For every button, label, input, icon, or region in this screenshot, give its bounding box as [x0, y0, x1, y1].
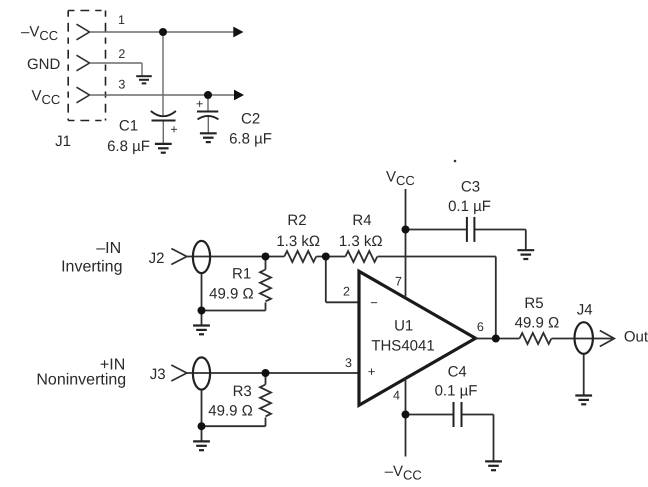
svg-text:Inverting: Inverting	[61, 259, 122, 276]
svg-text:−: −	[370, 295, 378, 310]
svg-text:C2: C2	[241, 110, 260, 127]
svg-text:J3: J3	[150, 366, 166, 383]
svg-text:J4: J4	[577, 301, 593, 318]
svg-text:3: 3	[345, 356, 352, 370]
svg-text:THS4041: THS4041	[371, 338, 434, 355]
svg-text:7: 7	[395, 275, 402, 289]
svg-text:49.9 Ω: 49.9 Ω	[209, 285, 254, 302]
svg-text:J1: J1	[55, 133, 71, 150]
svg-text:2: 2	[118, 47, 125, 61]
svg-text:J2: J2	[149, 250, 165, 267]
svg-text:C4: C4	[448, 364, 467, 381]
svg-text:0.1 µF: 0.1 µF	[448, 198, 491, 215]
svg-text:3: 3	[118, 78, 125, 92]
svg-text:Out: Out	[624, 329, 648, 346]
svg-text:6: 6	[477, 320, 484, 334]
svg-text:R3: R3	[233, 383, 252, 400]
svg-text:R5: R5	[524, 295, 543, 312]
svg-text:R4: R4	[352, 212, 371, 229]
svg-text:0.1 µF: 0.1 µF	[435, 382, 478, 399]
svg-text:C3: C3	[461, 179, 480, 196]
svg-text:–VCC: –VCC	[385, 463, 422, 483]
svg-text:2: 2	[343, 285, 350, 299]
svg-text:+: +	[368, 364, 376, 379]
svg-text:+: +	[196, 97, 203, 111]
svg-text:C1: C1	[119, 118, 138, 135]
svg-text:R2: R2	[287, 212, 306, 229]
svg-text:Noninverting: Noninverting	[36, 372, 126, 389]
svg-text:U1: U1	[394, 318, 413, 335]
svg-text:R1: R1	[232, 266, 251, 283]
svg-text:4: 4	[393, 389, 400, 403]
svg-text:GND: GND	[27, 56, 61, 73]
svg-text:+: +	[170, 122, 177, 136]
svg-text:VCC: VCC	[32, 88, 61, 108]
svg-text:6.8 µF: 6.8 µF	[229, 131, 272, 148]
svg-text:1: 1	[118, 13, 125, 27]
svg-text:–VCC: –VCC	[21, 24, 58, 44]
svg-text:–IN: –IN	[96, 240, 121, 257]
svg-text:VCC: VCC	[386, 169, 415, 189]
svg-text:1.3 kΩ: 1.3 kΩ	[339, 233, 383, 250]
svg-text:1.3 kΩ: 1.3 kΩ	[276, 233, 320, 250]
svg-text:6.8 µF: 6.8 µF	[107, 138, 150, 155]
svg-text:49.9 Ω: 49.9 Ω	[208, 402, 253, 419]
svg-text:49.9 Ω: 49.9 Ω	[515, 315, 560, 332]
